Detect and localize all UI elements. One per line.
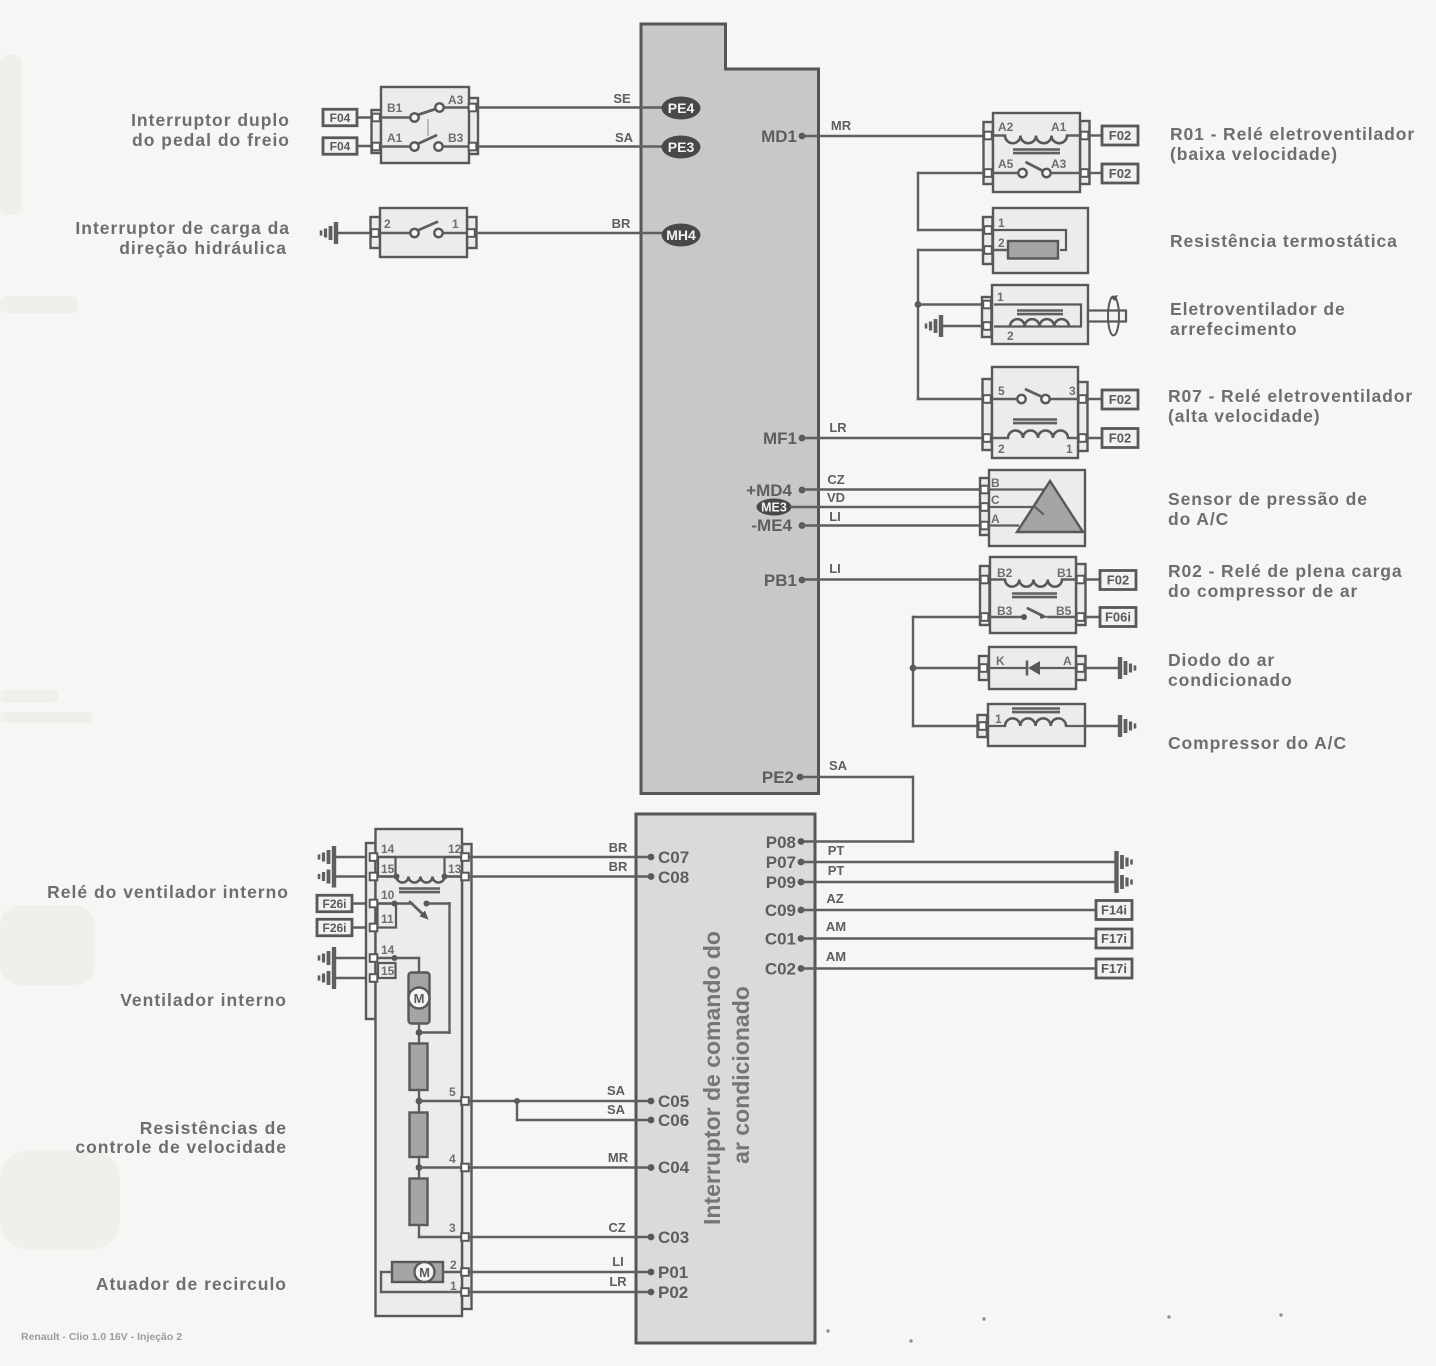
fan blade ellipse xyxy=(1108,297,1119,336)
R07 core xyxy=(1013,418,1057,421)
wire + tap 5 xyxy=(418,1090,420,1113)
svg-text:15: 15 xyxy=(381,862,395,876)
svg-text:Compressor do A/C: Compressor do A/C xyxy=(1168,733,1347,753)
pressure sensor box xyxy=(989,470,1085,546)
diode brackets xyxy=(979,656,989,680)
cooling fan bracket xyxy=(982,297,992,337)
junction node xyxy=(915,301,922,308)
R02 box xyxy=(990,557,1076,633)
connector PE4 xyxy=(662,97,701,120)
svg-text:M: M xyxy=(414,991,425,1006)
grounds at fan pins 14/15 xyxy=(332,947,336,969)
svg-text:LI: LI xyxy=(829,509,841,524)
fuse F02 at R07.1 xyxy=(1087,437,1102,439)
svg-text:B: B xyxy=(991,476,1000,490)
fuse F02 at R01.A3 xyxy=(1089,172,1102,174)
svg-text:M: M xyxy=(419,1265,430,1280)
svg-text:MF1: MF1 xyxy=(763,429,797,448)
svg-text:BR: BR xyxy=(612,216,631,231)
speed resistor 2 xyxy=(410,1113,428,1158)
wire into thermostatic resistor pin1 xyxy=(918,229,986,231)
svg-text:Atuador de recirculo: Atuador de recirculo xyxy=(96,1274,287,1294)
node C07 xyxy=(648,854,655,861)
switch blade B1-A3 xyxy=(418,109,438,116)
svg-text:do A/C: do A/C xyxy=(1168,509,1229,529)
svg-text:B2: B2 xyxy=(997,566,1013,580)
svg-text:arrefecimento: arrefecimento xyxy=(1170,319,1297,339)
svg-text:PE4: PE4 xyxy=(668,100,695,116)
svg-text:C02: C02 xyxy=(765,960,796,979)
fuse F02 at R07.3 xyxy=(1087,398,1102,400)
svg-text:K: K xyxy=(996,654,1005,668)
inner frame xyxy=(994,230,1066,250)
svg-text:A2: A2 xyxy=(998,120,1014,134)
node P01 xyxy=(648,1269,655,1276)
svg-text:F17i: F17i xyxy=(1101,961,1127,976)
svg-text:LI: LI xyxy=(829,561,841,576)
ECU injection module (top gray box) xyxy=(641,24,819,794)
svg-text:11: 11 xyxy=(381,912,394,926)
svg-text:R01 - Relé eletroventilador: R01 - Relé eletroventilador xyxy=(1170,124,1415,144)
svg-text:controle de velocidade: controle de velocidade xyxy=(75,1137,287,1157)
svg-text:F06i: F06i xyxy=(1105,610,1131,625)
compressor winding xyxy=(988,725,1005,727)
svg-text:F02: F02 xyxy=(1109,128,1131,143)
svg-text:SA: SA xyxy=(829,758,848,773)
svg-text:SA: SA xyxy=(607,1102,626,1117)
svg-text:LR: LR xyxy=(829,420,847,435)
recirculation actuator motor xyxy=(392,1262,443,1282)
svg-text:10: 10 xyxy=(381,888,395,902)
svg-text:do pedal do freio: do pedal do freio xyxy=(132,130,290,150)
svg-text:B3: B3 xyxy=(997,604,1013,618)
svg-text:do compressor de ar: do compressor de ar xyxy=(1168,581,1358,601)
svg-text:1: 1 xyxy=(452,217,459,231)
relay R01 brackets xyxy=(984,122,994,184)
svg-text:B1: B1 xyxy=(1057,566,1073,580)
wire pin2 row xyxy=(377,232,411,234)
svg-text:F02: F02 xyxy=(1109,431,1131,446)
svg-text:R02 - Relé de plena carga: R02 - Relé de plena carga xyxy=(1168,561,1403,581)
svg-text:C01: C01 xyxy=(765,930,796,949)
connector MH4 xyxy=(662,224,701,247)
svg-text:PB1: PB1 xyxy=(764,571,797,590)
svg-text:F04: F04 xyxy=(330,111,351,125)
svg-text:Interruptor duplo: Interruptor duplo xyxy=(131,110,290,130)
fuse F26i (pin10) xyxy=(352,902,369,904)
svg-text:1: 1 xyxy=(1066,442,1073,456)
relay coil xyxy=(397,877,445,883)
node P02 xyxy=(648,1289,655,1296)
R01 coil xyxy=(1005,136,1067,144)
steering switch brackets xyxy=(371,217,381,248)
R07 brackets xyxy=(983,379,993,450)
svg-text:15: 15 xyxy=(381,964,395,978)
wire to diode K xyxy=(913,667,982,669)
compressor bracket xyxy=(978,715,988,737)
svg-text:LI: LI xyxy=(612,1254,624,1269)
svg-text:CZ: CZ xyxy=(608,1220,625,1235)
svg-text:Renault - Clio 1.0 16V - Injeç: Renault - Clio 1.0 16V - Injeção 2 xyxy=(21,1331,182,1343)
svg-text:1: 1 xyxy=(450,1279,457,1293)
svg-text:SE: SE xyxy=(613,91,631,106)
svg-text:A1: A1 xyxy=(387,131,403,145)
fan shaft xyxy=(1088,311,1126,322)
svg-text:P07: P07 xyxy=(766,853,796,872)
wire A1 row xyxy=(378,145,411,147)
svg-text:LR: LR xyxy=(609,1274,627,1289)
brake switch connector brackets xyxy=(372,110,382,153)
fan inner frame xyxy=(994,305,1081,327)
svg-text:P09: P09 xyxy=(766,873,796,892)
svg-text:PE2: PE2 xyxy=(762,768,794,787)
row 14 wire to C07 xyxy=(378,856,648,858)
ground (left of steering switch) xyxy=(334,222,338,244)
wire LI : PB1 to R02.B2 xyxy=(802,578,983,580)
svg-text:SA: SA xyxy=(607,1083,626,1098)
wire diode A to ground xyxy=(1086,667,1119,669)
svg-text:C: C xyxy=(991,493,1000,507)
svg-text:A: A xyxy=(991,512,1000,526)
svg-text:14: 14 xyxy=(381,842,395,856)
svg-text:A5: A5 xyxy=(998,157,1014,171)
svg-text:PT: PT xyxy=(828,843,845,858)
svg-text:P08: P08 xyxy=(766,833,796,852)
frame around 11 xyxy=(378,904,397,928)
frame around 13 xyxy=(445,857,463,877)
svg-text:F17i: F17i xyxy=(1101,931,1127,946)
svg-text:Relé do ventilador interno: Relé do ventilador interno xyxy=(47,882,289,902)
svg-text:AM: AM xyxy=(826,919,846,934)
wire down to R07.5 xyxy=(917,398,919,399)
svg-text:R07 - Relé eletroventilador: R07 - Relé eletroventilador xyxy=(1168,386,1413,406)
svg-text:AM: AM xyxy=(826,949,846,964)
wire pin2 to junction, down xyxy=(917,250,919,398)
wire LR : MF1 to R07.2 xyxy=(802,437,986,439)
svg-text:VD: VD xyxy=(827,490,845,505)
wire B3 row / SA xyxy=(442,145,665,147)
svg-text:PT: PT xyxy=(828,863,845,878)
fuse F02 at R02.B1 xyxy=(1086,578,1100,580)
svg-text:5: 5 xyxy=(449,1085,456,1099)
svg-text:C07: C07 xyxy=(658,848,689,867)
svg-text:2: 2 xyxy=(998,442,1005,456)
R01 switch row A5-A3 xyxy=(990,172,1018,174)
svg-text:Resistência termostática: Resistência termostática xyxy=(1170,231,1398,251)
R01 coil row A2-A1 xyxy=(990,134,1005,136)
A/C compressor box xyxy=(988,704,1085,746)
wire SA : PE2 to P08 xyxy=(800,776,913,778)
wire R02.B3 left and down xyxy=(913,616,981,618)
sensor triangle xyxy=(1017,481,1083,532)
svg-text:A1: A1 xyxy=(1051,120,1067,134)
decorative xyxy=(0,55,120,1250)
svg-text:5: 5 xyxy=(998,384,1005,398)
svg-text:Eletroventilador de: Eletroventilador de xyxy=(1170,299,1346,319)
svg-text:2: 2 xyxy=(450,1258,457,1272)
thermostatic resistor bracket xyxy=(983,217,993,264)
wire A3 row / SE xyxy=(443,106,665,108)
svg-text:ME3: ME3 xyxy=(761,501,787,515)
svg-text:direção hidráulica: direção hidráulica xyxy=(119,238,287,258)
svg-text:MH4: MH4 xyxy=(666,227,696,243)
wire + tap 3 xyxy=(418,1225,420,1237)
svg-text:Sensor de pressão de: Sensor de pressão de xyxy=(1168,489,1368,509)
svg-text:MR: MR xyxy=(831,118,852,133)
svg-text:3: 3 xyxy=(449,1221,456,1235)
row 10 switch xyxy=(378,902,412,904)
cooling fan box (Eletroventilador de arrefecimento) xyxy=(992,285,1088,344)
svg-text:(baixa velocidade): (baixa velocidade) xyxy=(1170,144,1338,164)
wire compressor to ground xyxy=(1085,725,1119,727)
fan winding xyxy=(1010,319,1069,326)
svg-text:F02: F02 xyxy=(1109,166,1131,181)
svg-text:-ME4: -ME4 xyxy=(751,516,792,535)
R07 coil row 2-1 xyxy=(989,437,1008,439)
svg-text:Interruptor de carga da: Interruptor de carga da xyxy=(75,218,290,238)
blower unit left bracket xyxy=(366,843,376,1019)
terminals xyxy=(372,114,380,122)
wire VD xyxy=(791,506,983,508)
wire CZ xyxy=(802,488,983,490)
R07 box xyxy=(992,367,1078,458)
svg-text:F02: F02 xyxy=(1109,392,1131,407)
blower unit right bracket xyxy=(462,844,472,1309)
frame around 15 (fan) xyxy=(378,963,396,978)
diode element xyxy=(989,667,1026,669)
blower terminals right xyxy=(461,853,469,861)
relay R01 box xyxy=(993,113,1080,192)
svg-text:4: 4 xyxy=(449,1152,456,1166)
svg-text:B5: B5 xyxy=(1056,604,1072,618)
svg-text:MD1: MD1 xyxy=(761,127,797,146)
R02 coil row B2-B1 xyxy=(987,578,1005,580)
R02 switch row B3-B5 xyxy=(987,616,1022,618)
sensor internal wires xyxy=(989,488,1049,490)
connector ME3 xyxy=(757,499,792,516)
switch blade A1-B3 xyxy=(418,136,437,145)
steering load switch box xyxy=(380,208,467,257)
resistor element (gray) xyxy=(1008,241,1058,259)
svg-text:1: 1 xyxy=(998,216,1005,230)
svg-text:C03: C03 xyxy=(658,1228,689,1247)
wire + tap 4 xyxy=(418,1157,420,1179)
svg-text:F26i: F26i xyxy=(322,921,346,935)
brake pedal switch S1 box xyxy=(381,87,469,163)
speed resistor 3 xyxy=(410,1179,428,1226)
svg-text:Diodo do ar: Diodo do ar xyxy=(1168,650,1275,670)
svg-text:BR: BR xyxy=(609,840,628,855)
A/C diode box xyxy=(989,647,1076,689)
svg-text:Ventilador interno: Ventilador interno xyxy=(120,990,287,1010)
svg-text:(alta velocidade): (alta velocidade) xyxy=(1168,406,1320,426)
wire down to compressor xyxy=(913,725,981,727)
Interruptor de comando do ar condicionado (lower gray box) xyxy=(636,814,815,1343)
wire pin2 xyxy=(918,249,1010,251)
R01 core xyxy=(1013,148,1060,151)
connector PE3 xyxy=(662,136,701,159)
fuse F06i at R02.B5 xyxy=(1086,616,1100,618)
fuse F04 (upper) xyxy=(357,116,374,118)
node C04 xyxy=(648,1164,655,1171)
svg-text:ar condicionado: ar condicionado xyxy=(728,986,754,1164)
node C05 xyxy=(648,1098,655,1105)
svg-text:2: 2 xyxy=(1007,329,1014,343)
node C03 xyxy=(648,1234,655,1241)
fuse F04 (lower) xyxy=(357,145,374,147)
svg-text:B3: B3 xyxy=(448,131,464,145)
svg-text:P02: P02 xyxy=(658,1283,688,1302)
wire motor to resistor chain xyxy=(418,1024,420,1044)
svg-text:AZ: AZ xyxy=(826,891,843,906)
frame around 15 xyxy=(378,857,396,877)
ground at fan pin2 xyxy=(939,315,943,337)
svg-text:14: 14 xyxy=(381,943,395,957)
sensor bracket xyxy=(980,478,990,535)
row 15/13 coil wire to C08 xyxy=(378,875,397,877)
switch return wire down to motor bottom xyxy=(427,902,450,904)
blower terminals left xyxy=(370,853,378,861)
svg-text:C05: C05 xyxy=(658,1092,689,1111)
thermostatic resistor box xyxy=(993,208,1088,273)
grounds at relay pins 14/15 xyxy=(332,846,336,868)
svg-text:C08: C08 xyxy=(658,868,689,887)
svg-text:Resistências de: Resistências de xyxy=(140,1118,287,1138)
fuse F26i (pin11) xyxy=(352,926,369,928)
node C06 xyxy=(648,1117,655,1124)
svg-text:A3: A3 xyxy=(1051,157,1067,171)
svg-text:1: 1 xyxy=(997,290,1004,304)
svg-text:2: 2 xyxy=(384,217,391,231)
node C08 xyxy=(648,873,655,880)
wire LI xyxy=(802,524,983,526)
svg-text:C04: C04 xyxy=(658,1158,690,1177)
svg-text:12: 12 xyxy=(448,842,462,856)
svg-text:C09: C09 xyxy=(765,901,796,920)
svg-text:PE3: PE3 xyxy=(668,139,695,155)
row 14 (fan) wire xyxy=(378,957,419,959)
R07 switch blade xyxy=(1026,390,1044,398)
svg-text:MR: MR xyxy=(608,1150,629,1165)
switch link xyxy=(427,119,429,136)
speed resistor 1 xyxy=(410,1044,428,1091)
svg-text:C06: C06 xyxy=(658,1111,689,1130)
fuse F02 at R01.A1 xyxy=(1089,134,1102,136)
svg-text:CZ: CZ xyxy=(827,472,844,487)
svg-text:1: 1 xyxy=(995,712,1002,726)
R02 switch blade closed w/arrow xyxy=(1021,614,1027,620)
junction to C06 xyxy=(514,1098,520,1104)
svg-text:Interruptor de comando do: Interruptor de comando do xyxy=(699,931,725,1225)
R07 switch row 5-3 xyxy=(989,398,1017,400)
blower unit main box xyxy=(376,829,463,1316)
svg-text:3: 3 xyxy=(1069,384,1076,398)
junction node (diode) xyxy=(910,665,917,672)
svg-text:B1: B1 xyxy=(387,101,403,115)
R02 brackets xyxy=(980,566,990,625)
contact circles xyxy=(410,113,418,121)
svg-text:SA: SA xyxy=(615,130,634,145)
svg-text:A: A xyxy=(1063,654,1072,668)
blower motor M xyxy=(409,973,430,1024)
svg-text:+MD4: +MD4 xyxy=(746,481,792,500)
svg-text:13: 13 xyxy=(448,862,462,876)
switch blade 2-1 xyxy=(418,222,438,231)
wire MR : MD1 to R01.A2 xyxy=(802,135,986,137)
svg-text:condicionado: condicionado xyxy=(1168,670,1293,690)
svg-text:A3: A3 xyxy=(448,93,464,107)
svg-text:F02: F02 xyxy=(1107,573,1129,588)
svg-text:2: 2 xyxy=(998,236,1005,250)
svg-text:BR: BR xyxy=(609,859,628,874)
svg-text:F04: F04 xyxy=(330,139,351,153)
svg-text:F26i: F26i xyxy=(322,897,346,911)
svg-text:P01: P01 xyxy=(658,1263,688,1282)
wire R01.A5 down-left xyxy=(918,172,984,174)
svg-text:F14i: F14i xyxy=(1101,903,1127,918)
wire to fan pin1 xyxy=(918,303,985,305)
R01 switch blade xyxy=(1027,163,1045,172)
wire pin1 row / BR xyxy=(442,232,665,234)
stray specks xyxy=(826,1329,829,1332)
wire B1 row xyxy=(378,116,411,118)
actuator wires xyxy=(443,1271,648,1273)
